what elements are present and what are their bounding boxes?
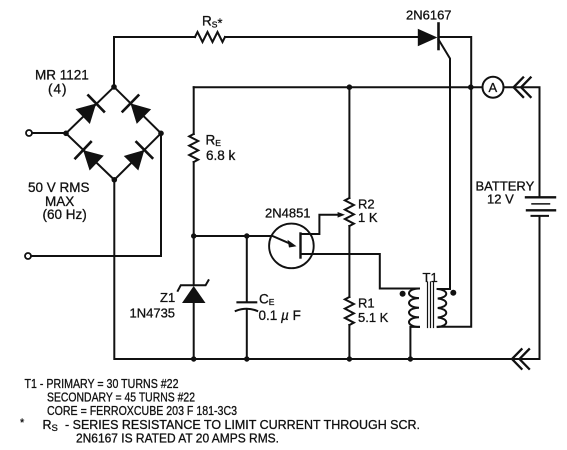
- diode bridge arm: bottom to right: [114, 133, 161, 180]
- wire: terminal 2 right then up to bridge right node: [31, 134, 161, 257]
- wire: CE bottom lead: [246, 310, 248, 359]
- node: R2 top on second rail: [347, 84, 353, 90]
- wire: SCR cathode to right, down to ammeter node, down to T1 secondary bottom: [438, 37, 472, 327]
- svg-text:RS: RS: [202, 14, 218, 30]
- wire: R1 bottom lead: [348, 325, 350, 359]
- wire: second rail (RE top to ammeter): [194, 86, 483, 88]
- svg-text:- SERIES RESISTANCE TO LIMIT C: - SERIES RESISTANCE TO LIMIT CURRENT THR…: [65, 418, 420, 432]
- wire: bridge bottom down, bottom rail, up to battery bottom: [114, 180, 539, 359]
- svg-text:R1: R1: [358, 296, 375, 311]
- svg-text:MR 1121: MR 1121: [35, 68, 89, 83]
- bridge diode D1 (left-to-top arm, MR 1121): [75, 95, 104, 124]
- svg-text:T1: T1: [423, 270, 438, 285]
- battery 12V: [526, 197, 555, 216]
- zener diode Z1 1N4735: [178, 280, 209, 303]
- node: T1 primary on bottom rail: [408, 356, 413, 361]
- svg-text:CE: CE: [259, 292, 275, 308]
- wire: bridge top node up to top rail, rail to Rs: [114, 37, 195, 87]
- wire: CE top lead: [246, 236, 248, 302]
- connector chevrons (bottom): [512, 349, 529, 369]
- R2 wiper arrowhead: [338, 212, 345, 218]
- svg-text:6.8 k: 6.8 k: [206, 148, 236, 163]
- wire: terminal 1 to bridge left node: [32, 132, 66, 134]
- transformer T1 core: [428, 282, 434, 328]
- transistor Q1 2N4851 (UJT): [269, 224, 314, 269]
- wire: emitter line from RE node to UJT: [194, 235, 270, 237]
- resistor RE 6.8k: [189, 134, 198, 162]
- capacitor CE 0.1uF: [236, 302, 258, 311]
- node: CE on bottom rail: [244, 356, 249, 361]
- diode bridge arm: left to top: [66, 87, 114, 133]
- node: R1 on bottom rail: [347, 356, 352, 361]
- diode bridge arm: top to right: [114, 87, 161, 133]
- wire: RE top lead: [193, 87, 195, 134]
- svg-text:A: A: [489, 80, 498, 95]
- svg-text:RS: RS: [43, 418, 58, 434]
- potentiometer R2 1K: [345, 198, 354, 226]
- svg-text:12 V: 12 V: [487, 192, 514, 207]
- wire: UJT base-1 to T1 primary top: [301, 254, 420, 289]
- wire: T1 primary bottom lead: [410, 327, 419, 359]
- svg-text:*: *: [20, 417, 25, 429]
- wire: Rs to SCR anode: [225, 36, 418, 38]
- svg-text:2N6167: 2N6167: [406, 8, 452, 23]
- svg-text:1N4735: 1N4735: [130, 306, 176, 321]
- resistor Rs* (series resistor): [195, 32, 225, 42]
- svg-text:50 V RMS: 50 V RMS: [28, 180, 90, 195]
- SCR 2N6167: [418, 24, 439, 50]
- svg-text:(4): (4): [48, 82, 68, 97]
- connector chevrons (top): [514, 78, 531, 98]
- node: bridge bottom (DC-): [112, 177, 118, 183]
- wire: R2 to R1: [348, 226, 350, 297]
- bridge diode D4 (bottom-to-right arm, MR 1121): [123, 142, 152, 171]
- svg-text:2N4851: 2N4851: [265, 206, 311, 221]
- svg-text:(60 Hz): (60 Hz): [43, 207, 87, 222]
- node: SCR cathode / ammeter junction: [468, 84, 474, 90]
- svg-text:5.1 K: 5.1 K: [358, 310, 389, 325]
- node: bridge right: [158, 131, 164, 137]
- svg-text:T1 - PRIMARY = 30 TURNS #22: T1 - PRIMARY = 30 TURNS #22: [25, 377, 179, 391]
- node: zener on bottom rail: [191, 356, 196, 361]
- svg-text:SECONDARY = 45 TURNS #22: SECONDARY = 45 TURNS #22: [47, 391, 195, 405]
- diode bridge arm: left to bottom: [66, 133, 114, 180]
- node: RE / zener junction: [191, 233, 196, 238]
- wire: zener top lead: [193, 236, 195, 285]
- wire: UJT base-2 to R2 wiper arrow: [301, 215, 340, 234]
- node: bridge top (DC+): [111, 84, 117, 90]
- svg-text:2N6167 IS RATED AT 20 AMPS RMS: 2N6167 IS RATED AT 20 AMPS RMS.: [76, 432, 279, 446]
- wire: R2 branch from second rail: [348, 87, 350, 198]
- input terminal 1 (AC): [26, 130, 32, 136]
- svg-text:0.1 µ F: 0.1 µ F: [259, 308, 301, 323]
- svg-text:Z1: Z1: [160, 290, 175, 305]
- wire: RE bottom lead to emitter node: [193, 162, 195, 236]
- bridge diode D2 (right-to-top arm, MR 1121): [123, 95, 152, 124]
- T1 secondary polarity dot: [450, 290, 456, 296]
- wire: zener bottom lead: [193, 303, 195, 359]
- input terminal 2 (AC): [25, 253, 31, 259]
- svg-text:CORE = FERROXCUBE 203 F 181-3C: CORE = FERROXCUBE 203 F 181-3C3: [47, 404, 237, 418]
- svg-text:*: *: [218, 16, 223, 30]
- bridge diode D3 (bottom-to-left arm, MR 1121): [75, 142, 104, 171]
- wire: SCR gate diagonal and down to T1 secondary top: [438, 40, 450, 290]
- svg-text:RE: RE: [206, 132, 222, 148]
- svg-text:1 K: 1 K: [358, 210, 378, 225]
- node: CE junction: [244, 233, 249, 238]
- ammeter A: [483, 77, 504, 98]
- wire: ammeter to battery top: [504, 87, 540, 196]
- T1 primary polarity dot: [400, 291, 406, 297]
- transformer T1 secondary winding: [438, 289, 447, 327]
- resistor R1 5.1K: [345, 297, 354, 325]
- node: bridge left: [63, 131, 69, 137]
- transformer T1 primary winding: [409, 289, 419, 327]
